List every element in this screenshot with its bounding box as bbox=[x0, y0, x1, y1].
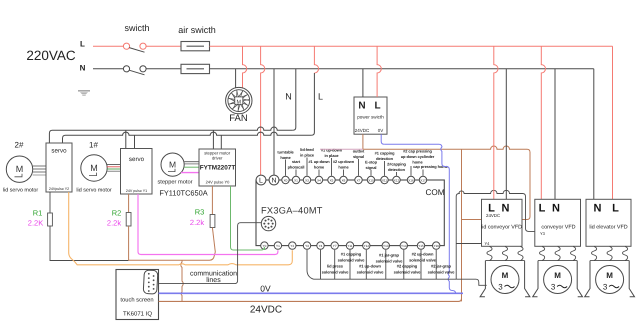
svg-text:X1: X1 bbox=[294, 178, 298, 182]
svg-text:FY110TC650A: FY110TC650A bbox=[159, 189, 207, 198]
Y16 solenoid lead bbox=[428, 250, 456, 279]
svg-text:#1 up-down: #1 up-down bbox=[359, 264, 381, 269]
svg-text:power swicth: power swicth bbox=[357, 115, 384, 120]
wires motor2# to servo drive bbox=[33, 166, 46, 175]
servo2 L drop bbox=[134, 135, 136, 148]
ground symbol bbox=[78, 91, 90, 96]
wire L switch to air switch bbox=[146, 45, 181, 47]
switch pole on N bbox=[123, 66, 146, 75]
svg-text:#1 capping: #1 capping bbox=[341, 252, 362, 257]
svg-text:L: L bbox=[259, 178, 263, 185]
svg-text:driver: driver bbox=[212, 155, 223, 160]
svg-text:2.2k: 2.2k bbox=[190, 218, 204, 227]
svg-text:signal: signal bbox=[366, 165, 377, 170]
svg-text:in place: in place bbox=[324, 153, 339, 158]
svg-text:#1 capping: #1 capping bbox=[375, 151, 395, 156]
svg-text:conveyor VFD: conveyor VFD bbox=[541, 225, 575, 231]
X17 sensor lead bbox=[413, 164, 448, 176]
svg-text:0V: 0V bbox=[260, 283, 271, 293]
svg-text:Y3: Y3 bbox=[540, 231, 546, 236]
air switch fuse on L bbox=[181, 42, 210, 51]
servo drive 1# box bbox=[121, 149, 153, 195]
svg-text:solenoid valve: solenoid valve bbox=[394, 269, 422, 274]
svg-text:#1 up-down: #1 up-down bbox=[308, 159, 330, 164]
svg-text:Y7: Y7 bbox=[333, 244, 337, 248]
svg-text:Y4: Y4 bbox=[319, 244, 323, 248]
Y12 solenoid lead bbox=[357, 250, 385, 279]
Y14 solenoid lead bbox=[394, 250, 422, 279]
wire R2 to R3 common bbox=[129, 226, 216, 260]
svg-text:FX3GA–40MT: FX3GA–40MT bbox=[261, 206, 323, 216]
svg-text:R2: R2 bbox=[112, 209, 122, 218]
svg-text:lid-feed: lid-feed bbox=[300, 147, 314, 152]
svg-text:Y3: Y3 bbox=[305, 244, 309, 248]
svg-text:lid servo motor: lid servo motor bbox=[76, 188, 112, 194]
X7 sensor lead bbox=[353, 149, 365, 176]
svg-text:lid press: lid press bbox=[327, 264, 344, 269]
svg-text:servo: servo bbox=[129, 156, 145, 163]
wire R3 down to corner bbox=[212, 228, 215, 253]
svg-text:Y11: Y11 bbox=[347, 244, 353, 248]
svg-text:L: L bbox=[80, 40, 85, 49]
resistor R1 bbox=[48, 213, 53, 226]
wires motor1# to servo drive bbox=[107, 165, 121, 172]
svg-text:start: start bbox=[292, 159, 301, 164]
svg-text:home: home bbox=[338, 165, 349, 170]
X5 sensor lead bbox=[321, 148, 343, 176]
wire 24VDC brown distribution (hops over VFD feeds) bbox=[363, 146, 530, 220]
svg-text:24VDC: 24VDC bbox=[486, 213, 500, 218]
X0 sensor lead bbox=[277, 150, 294, 176]
X4 sensor lead bbox=[308, 159, 330, 176]
wire N to conveyor VFD bbox=[554, 69, 556, 200]
svg-text:solenoid valve: solenoid valve bbox=[428, 269, 456, 274]
svg-text:2.2K: 2.2K bbox=[28, 219, 43, 228]
svg-text:photocall: photocall bbox=[288, 165, 305, 170]
svg-text:M: M bbox=[237, 99, 242, 105]
wire Y4 drop bbox=[320, 250, 322, 279]
wire L air switch to right end bbox=[210, 45, 613, 47]
wire L from source to switch bbox=[93, 45, 123, 47]
wire pink sensor supply bbox=[320, 148, 363, 150]
solenoid common rail bbox=[314, 278, 457, 280]
svg-text:L: L bbox=[612, 203, 619, 215]
svg-text:swicth: swicth bbox=[124, 23, 149, 33]
lid elevator VFD box bbox=[586, 199, 631, 246]
svg-text:1#: 1# bbox=[89, 141, 98, 150]
power switch box bbox=[354, 97, 387, 134]
wire L to lid conveyor VFD (hop over N) bbox=[494, 46, 498, 199]
wire 24VDC output of power switch bbox=[362, 134, 364, 149]
svg-text:detection: detection bbox=[388, 167, 406, 172]
svg-text:stepper motor: stepper motor bbox=[157, 180, 192, 186]
svg-text:in place: in place bbox=[300, 153, 315, 158]
stepper N drop bbox=[212, 130, 214, 149]
svg-text:#2 up-down: #2 up-down bbox=[412, 252, 434, 257]
svg-text:0V: 0V bbox=[378, 128, 384, 133]
wire common rail riser to VFD control bbox=[456, 190, 535, 279]
X6 sensor lead bbox=[333, 159, 355, 176]
Y11 solenoid lead bbox=[338, 250, 366, 279]
svg-text:FYTM2207T: FYTM2207T bbox=[200, 165, 236, 172]
svg-text:X7: X7 bbox=[357, 178, 361, 182]
svg-text:signal: signal bbox=[353, 154, 364, 159]
wire rail to motor frame bbox=[456, 279, 487, 285]
wire resistor common to 24VDC rail (with hops) bbox=[181, 260, 184, 301]
svg-text:R1: R1 bbox=[33, 209, 43, 218]
svg-text:solenoid valve: solenoid valve bbox=[376, 258, 404, 263]
svg-text:lid elevator VFD: lid elevator VFD bbox=[589, 225, 627, 231]
svg-text:N: N bbox=[358, 101, 365, 112]
svg-text:Y2: Y2 bbox=[290, 244, 294, 248]
X1 sensor lead bbox=[288, 159, 305, 176]
svg-text:TK6071 IQ: TK6071 IQ bbox=[123, 311, 152, 318]
wire servo1# to R2 bbox=[128, 194, 130, 213]
svg-text:220VAC: 220VAC bbox=[26, 48, 76, 63]
svg-text:N: N bbox=[285, 92, 292, 102]
svg-text:X11: X11 bbox=[382, 178, 388, 182]
svg-text:lid servo motor: lid servo motor bbox=[3, 188, 39, 194]
svg-text:N: N bbox=[594, 203, 602, 215]
svg-text:M: M bbox=[606, 271, 613, 280]
X3 sensor lead bbox=[300, 147, 315, 176]
svg-text:Y15: Y15 bbox=[418, 244, 424, 248]
PLC input terminals row bbox=[256, 175, 427, 185]
wire N end to lid elevator VFD bbox=[593, 69, 595, 200]
svg-text:N: N bbox=[271, 178, 276, 185]
svg-text:L: L bbox=[539, 203, 546, 215]
wire Y0 green pulse to stepper driver bbox=[231, 186, 265, 250]
svg-text:X10: X10 bbox=[368, 178, 374, 182]
svg-text:#2 jar-grap: #2 jar-grap bbox=[431, 264, 452, 269]
X10 sensor lead bbox=[365, 159, 377, 175]
svg-text:3: 3 bbox=[551, 283, 556, 292]
L bus vertical (red hop over N then black) bbox=[314, 46, 318, 73]
svg-text:up-down cyclinder: up-down cyclinder bbox=[401, 154, 435, 159]
wire L end to lid elevator VFD bbox=[612, 46, 614, 199]
svg-text:M: M bbox=[16, 164, 24, 174]
stepper motor driver box bbox=[199, 149, 236, 186]
lid servo motor 2# symbol bbox=[6, 156, 32, 182]
svg-text:X17: X17 bbox=[420, 178, 426, 182]
svg-text:solenoid valve: solenoid valve bbox=[322, 269, 350, 274]
svg-text:touch screen: touch screen bbox=[120, 297, 153, 304]
switch pole on L bbox=[123, 43, 146, 52]
servo drive 2# box bbox=[46, 143, 72, 192]
wire N from source to switch bbox=[93, 68, 123, 70]
wire L to conveyor VFD (hop over N) bbox=[541, 46, 545, 199]
air switch fuse on N bbox=[181, 64, 210, 73]
resistor R2 bbox=[126, 213, 131, 227]
Y13 solenoid lead bbox=[376, 250, 404, 279]
svg-text:home: home bbox=[280, 155, 291, 160]
wire servo2# to R1 bbox=[49, 192, 51, 213]
svg-text:lines: lines bbox=[206, 276, 221, 284]
lid elevator motor M3 bbox=[585, 246, 635, 296]
svg-text:24V pulse Y1: 24V pulse Y1 bbox=[126, 189, 147, 193]
touch screen DB9 connector bbox=[143, 270, 158, 294]
svg-text:N: N bbox=[502, 203, 510, 215]
wire N line to PLC N terminal bbox=[273, 69, 275, 176]
svg-text:turntable: turntable bbox=[277, 150, 294, 155]
communication lines label bbox=[190, 270, 237, 285]
svg-text:X3: X3 bbox=[305, 178, 309, 182]
L bus horizontal to drives (hops over crossings) bbox=[63, 132, 312, 143]
wire 0V blue to COM side bbox=[384, 144, 456, 293]
wire Y2 orange pulse to servo 2# bbox=[69, 192, 293, 265]
svg-text:X12: X12 bbox=[394, 178, 400, 182]
PLC programming connector bbox=[261, 216, 275, 230]
wire 24VDC into lid conveyor VFD bbox=[462, 219, 482, 221]
svg-text:Y13: Y13 bbox=[383, 244, 389, 248]
wire fan N drop bbox=[235, 69, 237, 90]
svg-text:X4: X4 bbox=[317, 178, 321, 182]
stepper L drop bbox=[220, 135, 222, 149]
wire 0V output of power switch bbox=[381, 134, 384, 144]
svg-text:solenoid valve: solenoid valve bbox=[357, 269, 385, 274]
svg-text:air swicth: air swicth bbox=[178, 25, 216, 35]
svg-text:#2 capping: #2 capping bbox=[397, 264, 418, 269]
svg-text:24Vpulse Y2: 24Vpulse Y2 bbox=[49, 187, 69, 191]
lid conveyor VFD box bbox=[481, 199, 522, 246]
svg-text:N: N bbox=[552, 203, 560, 215]
24VDC rail bbox=[159, 298, 462, 301]
wire L line to PLC L terminal (hop over N) bbox=[261, 46, 265, 175]
wire 24VDC drop to rail bbox=[461, 149, 463, 301]
wire driver to R3 bbox=[211, 186, 213, 215]
wires stepper motor to driver bbox=[181, 162, 199, 173]
N bus horizontal to drives (hops over PLC feeds) bbox=[49, 127, 292, 143]
svg-text:M: M bbox=[502, 271, 509, 280]
servo2 N drop bbox=[125, 130, 127, 148]
svg-text:M: M bbox=[169, 160, 176, 170]
svg-text:Y1: Y1 bbox=[276, 244, 280, 248]
wire N to lid conveyor VFD bbox=[505, 69, 507, 200]
resistor R3 bbox=[210, 215, 215, 228]
svg-text:M: M bbox=[554, 271, 561, 280]
svg-text:lid conveyor VFD: lid conveyor VFD bbox=[481, 225, 522, 231]
svg-text:L: L bbox=[374, 101, 380, 112]
stepper motor symbol bbox=[161, 153, 184, 176]
svg-text:home: home bbox=[314, 165, 325, 170]
conveyor VFD box bbox=[535, 199, 581, 246]
svg-text:solenoid valve: solenoid valve bbox=[409, 257, 437, 262]
touch screen box bbox=[116, 270, 159, 320]
svg-text:24VDC: 24VDC bbox=[355, 128, 370, 133]
X11 sensor lead bbox=[375, 151, 395, 176]
svg-text:servo: servo bbox=[51, 148, 67, 155]
wire Y4 control to lid conveyor VFD bbox=[456, 243, 481, 245]
svg-text:X16: X16 bbox=[408, 178, 414, 182]
svg-text:24V pulse Y0: 24V pulse Y0 bbox=[206, 180, 230, 185]
svg-text:3: 3 bbox=[603, 283, 608, 292]
communication wire PLC to touch screen bbox=[157, 223, 261, 284]
svg-text:detection: detection bbox=[376, 156, 394, 161]
svg-text:2.2k: 2.2k bbox=[107, 219, 121, 228]
svg-text:3: 3 bbox=[498, 283, 503, 292]
svg-text:R3: R3 bbox=[195, 208, 205, 217]
wire R1 to common bbox=[50, 226, 129, 261]
wire Y3 to common rail bbox=[307, 250, 314, 279]
PLC output terminals row bbox=[261, 242, 440, 249]
svg-text:X0: X0 bbox=[284, 178, 288, 182]
wire N switch to air switch bbox=[146, 68, 181, 70]
svg-text:Y16: Y16 bbox=[433, 244, 439, 248]
svg-text:X6: X6 bbox=[342, 178, 346, 182]
lid servo motor 1# symbol bbox=[81, 155, 107, 181]
conveyor motor M2 bbox=[533, 246, 583, 296]
wire Y1 magenta pulse to servo 1# bbox=[138, 194, 278, 255]
0V rail bbox=[159, 292, 464, 294]
svg-text:2#: 2# bbox=[15, 141, 24, 150]
N bus vertical bbox=[293, 69, 296, 130]
svg-text:L: L bbox=[318, 92, 323, 102]
svg-text:COM: COM bbox=[425, 188, 444, 197]
svg-text:X5: X5 bbox=[330, 178, 334, 182]
svg-text:M: M bbox=[90, 163, 98, 173]
svg-text:Y4: Y4 bbox=[485, 241, 491, 246]
svg-text:N: N bbox=[80, 64, 86, 73]
svg-text:#1 up-down: #1 up-down bbox=[321, 148, 343, 153]
wire N air switch to right end bbox=[210, 68, 594, 70]
lid conveyor motor M1 bbox=[480, 246, 530, 296]
fan motor bbox=[226, 87, 252, 113]
svg-text:#2 up-down: #2 up-down bbox=[333, 159, 355, 164]
Y7 solenoid lead bbox=[322, 250, 350, 279]
svg-text:FAN: FAN bbox=[229, 113, 248, 124]
svg-text:Y14: Y14 bbox=[401, 244, 407, 248]
X16 sensor lead bbox=[401, 149, 435, 176]
wire N line to power switch bbox=[362, 69, 364, 97]
svg-text:Y12: Y12 bbox=[364, 244, 370, 248]
svg-text:24VDC: 24VDC bbox=[250, 305, 282, 316]
X12 sensor lead bbox=[387, 162, 406, 176]
Y15 solenoid lead bbox=[409, 250, 437, 279]
svg-text:solenoid valve: solenoid valve bbox=[338, 257, 366, 262]
svg-text:2#capping: 2#capping bbox=[387, 162, 406, 167]
svg-text:#1 jar-grap: #1 jar-grap bbox=[379, 253, 400, 258]
PLC box FX3GA-40MT bbox=[256, 180, 444, 246]
wire fan L drop with hop over N bbox=[243, 46, 247, 92]
wire L line to power switch (hop over N) bbox=[377, 46, 381, 97]
